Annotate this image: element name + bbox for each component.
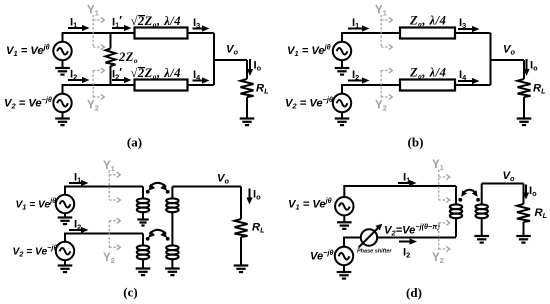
svg-text:Y1: Y1 bbox=[375, 5, 387, 18]
ground below V2 (a) bbox=[62, 112, 64, 118]
arrow Io (d) bbox=[525, 185, 527, 194]
wire Vo stub (a) bbox=[214, 59, 247, 61]
source Ve^-jtheta (d) bbox=[335, 247, 353, 265]
wire bottom V2 to transformer (d) bbox=[377, 237, 456, 239]
svg-text:I2: I2 bbox=[403, 247, 410, 260]
node Y1 probe (a) bbox=[92, 15, 94, 47]
wire V1 to transformer (d) bbox=[344, 186, 456, 197]
svg-text:I1: I1 bbox=[403, 172, 410, 185]
transmission line box bottom (a) bbox=[135, 80, 188, 91]
ground below T3 secondary (d) bbox=[474, 236, 489, 243]
node Y1 probe (c) bbox=[108, 171, 110, 201]
arrow I2 (a) bbox=[68, 79, 83, 81]
node Y2 probe (c) bbox=[108, 221, 110, 250]
svg-text:RL: RL bbox=[256, 83, 269, 96]
transmission line box top (b) bbox=[400, 28, 455, 39]
svg-text:I1: I1 bbox=[74, 172, 81, 185]
ground below T2 primary (c) bbox=[136, 269, 151, 276]
svg-text:Io: Io bbox=[254, 60, 262, 73]
svg-text:I3: I3 bbox=[193, 17, 200, 30]
resistor 2Zo (a) bbox=[110, 33, 112, 49]
resistor RL (d) bbox=[523, 184, 525, 205]
svg-text:(d): (d) bbox=[406, 285, 422, 300]
arrow I4 (a) bbox=[193, 80, 203, 82]
svg-text:Vo: Vo bbox=[503, 170, 515, 183]
svg-text:Io: Io bbox=[530, 60, 538, 73]
ground below V2 (b) bbox=[341, 112, 343, 118]
ground below V1 (d) bbox=[343, 215, 345, 222]
svg-text:Vo: Vo bbox=[226, 44, 238, 57]
transformer T1 primary (c) bbox=[142, 187, 144, 199]
resistor RL (c) bbox=[240, 187, 242, 220]
dot T1 primary (c) bbox=[146, 190, 150, 194]
wire V1 to box (a) bbox=[63, 33, 135, 42]
arrow Io (b) bbox=[526, 59, 528, 70]
svg-text:RL: RL bbox=[533, 83, 546, 96]
ground below RL (a) bbox=[240, 119, 255, 126]
wire box to bus bottom (b) bbox=[455, 84, 491, 86]
arrow I1' (a) bbox=[112, 27, 125, 29]
arrow I2 (d) bbox=[399, 241, 410, 243]
transformer T3 primary (d) bbox=[455, 186, 457, 205]
arrow I1 (b) bbox=[348, 28, 363, 30]
svg-text:I1: I1 bbox=[352, 17, 359, 30]
source V2 (c) bbox=[56, 242, 74, 260]
ground below V1 (c) bbox=[64, 213, 66, 217]
arrow Io (c) bbox=[249, 189, 251, 199]
svg-text:Y2: Y2 bbox=[103, 252, 115, 265]
wire Vo stub (b) bbox=[491, 59, 525, 61]
dot T2 secondary (c) bbox=[166, 237, 170, 241]
svg-text:I2: I2 bbox=[352, 69, 359, 82]
source V1 (a) bbox=[53, 42, 71, 60]
transformer T1 secondary (c) bbox=[171, 187, 173, 199]
transformer T2 primary (c) bbox=[142, 234, 144, 246]
svg-text:Y1: Y1 bbox=[87, 5, 99, 18]
dot T3 primary (d) bbox=[458, 198, 462, 202]
svg-text:Vo: Vo bbox=[217, 173, 229, 186]
svg-text:I1: I1 bbox=[70, 17, 77, 30]
svg-text:Zo, λ/4: Zo, λ/4 bbox=[409, 14, 446, 29]
svg-text:2Zo: 2Zo bbox=[118, 50, 138, 65]
node Y2 probe (b) bbox=[380, 71, 382, 100]
source V1 (c) bbox=[56, 195, 74, 213]
svg-text:√2Zo, λ/4: √2Zo, λ/4 bbox=[131, 66, 181, 81]
arrow I2 (c) bbox=[69, 229, 82, 231]
svg-text:Phase shifter: Phase shifter bbox=[357, 249, 392, 255]
coupling arrow T1 (c) bbox=[149, 183, 166, 187]
svg-text:I4: I4 bbox=[193, 69, 201, 82]
node Y1 probe (b) bbox=[380, 15, 382, 47]
coupling arrow T2 (c) bbox=[149, 230, 166, 234]
arrow I4 (b) bbox=[458, 80, 473, 82]
node Y1 probe (d) bbox=[438, 170, 440, 200]
arrow I1 (c) bbox=[69, 182, 82, 184]
svg-text:Y2: Y2 bbox=[375, 100, 387, 113]
resistor RL (a) bbox=[246, 60, 248, 79]
wire Vo (c) bbox=[172, 186, 241, 188]
right bus (b) bbox=[490, 33, 492, 85]
svg-text:Io: Io bbox=[253, 189, 261, 202]
wire box to bus top (b) bbox=[455, 32, 491, 34]
svg-text:(c): (c) bbox=[123, 285, 137, 300]
resistor RL (b) bbox=[523, 60, 525, 79]
svg-text:√2Zo, λ/4: √2Zo, λ/4 bbox=[131, 14, 181, 29]
svg-text:Io: Io bbox=[529, 185, 537, 198]
svg-text:V2=Ve−j(θ−π): V2=Ve−j(θ−π) bbox=[384, 222, 440, 238]
svg-text:V1 = Vejθ: V1 = Vejθ bbox=[287, 43, 331, 59]
wire V2 to box (b) bbox=[342, 85, 400, 94]
wire V2 to transformer (c) bbox=[65, 234, 143, 242]
node Y2 probe (a) bbox=[92, 71, 94, 100]
svg-text:V1 = Vejθ: V1 = Vejθ bbox=[288, 196, 332, 212]
svg-text:Zo, λ/4: Zo, λ/4 bbox=[409, 66, 446, 81]
arrow I1 (d) bbox=[398, 182, 410, 184]
svg-text:V2 = Ve−jθ: V2 = Ve−jθ bbox=[4, 95, 52, 111]
transformer T2 secondary (c) bbox=[166, 245, 178, 259]
arrow I3 (a) bbox=[193, 28, 203, 30]
arrow I1 (a) bbox=[68, 27, 83, 29]
wire box to bus top (a) bbox=[188, 32, 215, 34]
wire source to phase shifter (d) bbox=[344, 238, 361, 247]
dot T3 secondary (d) bbox=[476, 198, 480, 202]
source V2 (b) bbox=[333, 94, 351, 112]
wire box to bus bottom (a) bbox=[188, 84, 215, 86]
transmission line box bottom (b) bbox=[400, 80, 455, 91]
svg-text:I2: I2 bbox=[70, 69, 77, 82]
ground below V2 (c) bbox=[64, 260, 66, 265]
ground below source (d) bbox=[343, 265, 345, 272]
svg-text:I3: I3 bbox=[459, 17, 466, 30]
arrow I2' (a) bbox=[112, 79, 125, 81]
wire V1 to transformer (c) bbox=[65, 187, 143, 195]
svg-text:Y1: Y1 bbox=[103, 160, 115, 173]
wire V2 to box (a) bbox=[63, 85, 135, 94]
svg-text:I2: I2 bbox=[74, 219, 81, 232]
ground below T2 secondary (c) bbox=[165, 269, 180, 276]
transmission line box top (a) bbox=[135, 28, 188, 39]
svg-text:Y2: Y2 bbox=[87, 100, 99, 113]
ground below RL (d) bbox=[516, 236, 531, 243]
ground below RL (b) bbox=[517, 119, 532, 126]
ground below V1 (b) bbox=[341, 60, 343, 68]
svg-text:V2 = Ve−jθ: V2 = Ve−jθ bbox=[285, 95, 333, 111]
source V1 (b) bbox=[333, 42, 351, 60]
phase shifter U1 (d) bbox=[361, 229, 377, 245]
svg-text:Ve−jθ: Ve−jθ bbox=[310, 248, 333, 263]
arrow I2 (b) bbox=[348, 80, 363, 82]
ground below V1 (a) bbox=[62, 60, 64, 68]
svg-text:Vo: Vo bbox=[503, 44, 515, 57]
ground below RL (c) bbox=[234, 266, 249, 273]
svg-text:(a): (a) bbox=[127, 135, 142, 150]
right bus (a) bbox=[213, 33, 215, 85]
coupling arrow T3 (d) bbox=[463, 190, 477, 194]
node Y2 probe (d) bbox=[438, 223, 440, 251]
svg-text:RL: RL bbox=[535, 207, 548, 220]
dot T1 secondary (c) bbox=[166, 190, 170, 194]
arrow Io (a) bbox=[249, 59, 251, 70]
svg-text:Y2: Y2 bbox=[432, 252, 444, 265]
svg-text:V1 = Vejθ: V1 = Vejθ bbox=[16, 196, 57, 212]
transformer T3 secondary (d) bbox=[481, 184, 483, 205]
source V1 (d) bbox=[335, 197, 353, 215]
wire V1 to box (b) bbox=[342, 33, 400, 42]
svg-text:Y1: Y1 bbox=[432, 159, 444, 172]
svg-text:V2 = Ve−jθ: V2 = Ve−jθ bbox=[13, 243, 58, 259]
arrow I3 (b) bbox=[458, 28, 473, 30]
svg-text:I4: I4 bbox=[459, 69, 467, 82]
dot T2 primary (c) bbox=[146, 237, 150, 241]
ground below T1 primary (c) bbox=[137, 220, 148, 226]
svg-text:RL: RL bbox=[252, 222, 265, 235]
svg-text:(b): (b) bbox=[408, 135, 424, 150]
wire Vo (d) bbox=[482, 183, 524, 185]
svg-text:V1 = Vejθ: V1 = Vejθ bbox=[6, 43, 50, 59]
source V2 (a) bbox=[53, 94, 71, 112]
